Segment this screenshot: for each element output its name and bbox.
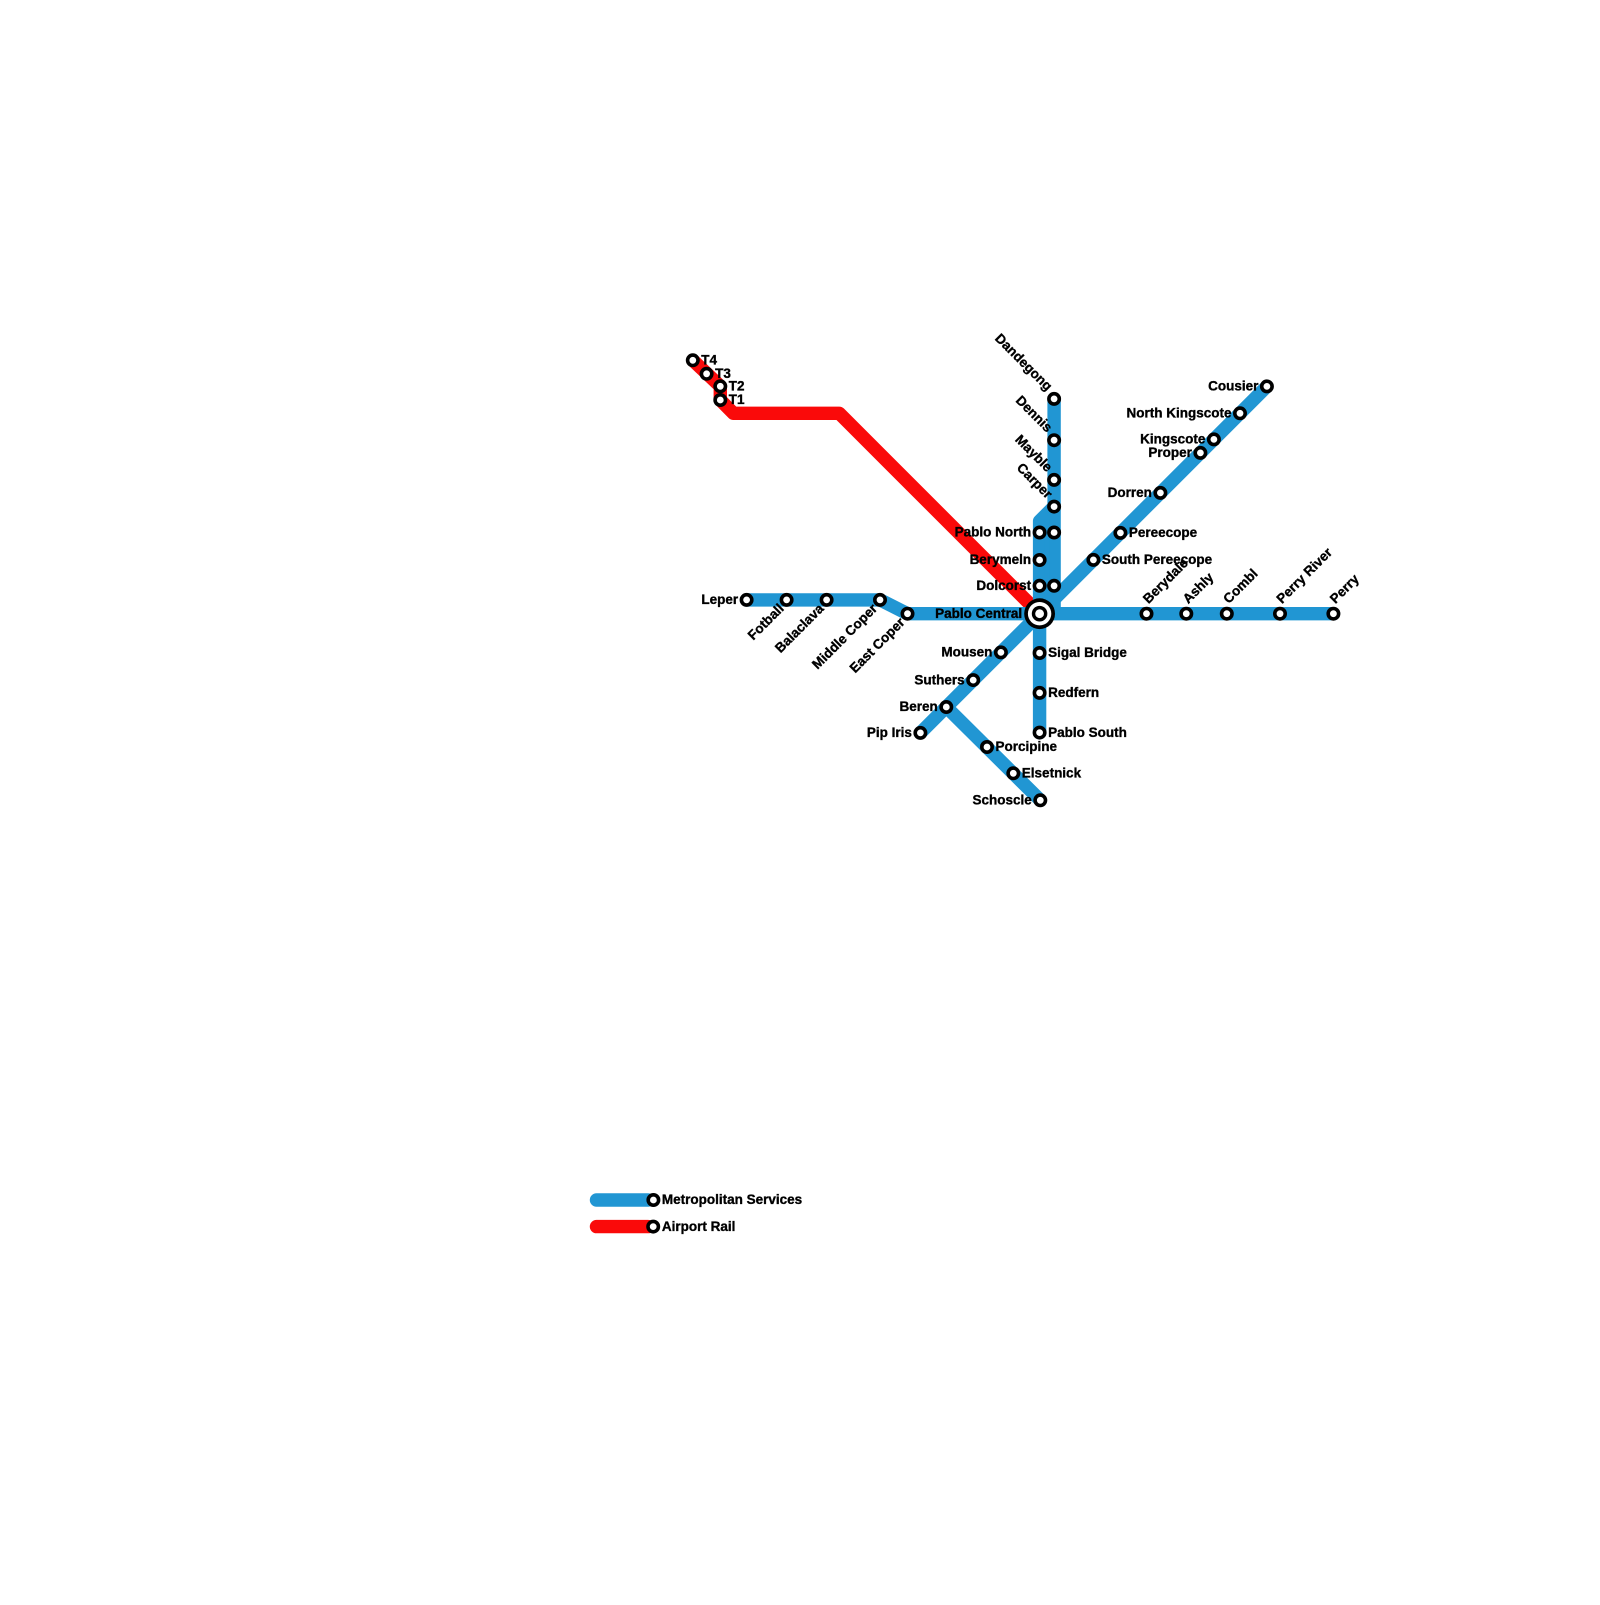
station Schoscle marker [1035,795,1045,805]
svg-text:T1: T1 [729,392,745,407]
svg-text:Mousen: Mousen [941,645,992,660]
station Suthers marker [968,675,978,685]
blue line Carper to Pablo South via Pablo Central [1040,507,1055,733]
station Perry River marker [1275,609,1285,619]
svg-text:Suthers: Suthers [914,672,964,687]
legend Airport Rail [597,1220,649,1233]
svg-text:Porcipine: Porcipine [996,739,1058,754]
svg-text:Beren: Beren [900,699,938,714]
station T2 marker [715,381,725,391]
station Pereecope marker [1115,528,1125,538]
blue seam filler between parallel vertical lines [1044,519,1049,612]
svg-text:Cousier: Cousier [1208,379,1259,394]
svg-text:Redfern: Redfern [1048,685,1099,700]
red Airport Rail line T4 to Pablo Central [693,360,1040,613]
station interchange twin marker [1049,581,1059,591]
station Porcipine marker [982,742,992,752]
station North Kingscote marker [1235,408,1245,418]
station Perry marker [1328,609,1338,619]
svg-text:South Pereecope: South Pereecope [1102,552,1213,567]
svg-text:Dolcorst: Dolcorst [976,578,1031,593]
station T3 marker [701,369,711,379]
station Dolcorst marker [1034,581,1044,591]
blue line southeast diagonal Beren to Schoscle [946,707,1040,800]
svg-text:Sigal Bridge: Sigal Bridge [1048,645,1127,660]
svg-text:North Kingscote: North Kingscote [1126,406,1231,421]
svg-text:Pablo Central: Pablo Central [935,606,1022,621]
svg-text:Proper: Proper [1148,445,1192,460]
station Mayble marker [1049,475,1059,485]
station Sigal Bridge marker [1034,648,1044,658]
station Mousen marker [996,647,1006,657]
station South Pereecope marker [1088,555,1098,565]
svg-text:Leper: Leper [701,592,739,607]
station Berydale marker [1141,609,1151,619]
svg-text:Dorren: Dorren [1108,485,1152,500]
station Ashly marker [1181,609,1191,619]
svg-text:Pablo North: Pablo North [955,525,1032,540]
station Cousier marker [1262,381,1272,391]
svg-text:Airport Rail: Airport Rail [662,1219,736,1234]
svg-text:Pereecope: Pereecope [1129,525,1198,540]
station Fotball marker [781,595,791,605]
station Middle Coper marker [875,595,885,605]
blue line west-east Leper to Perry [747,600,1334,614]
station Balaclava marker [821,595,831,605]
station Dorren marker [1155,488,1165,498]
station Combl marker [1222,609,1232,619]
svg-text:Schoscle: Schoscle [973,793,1033,808]
station Kingscote marker [1209,434,1219,444]
svg-text:Pablo South: Pablo South [1048,725,1127,740]
station Beren marker [941,702,951,712]
station Redfern marker [1034,688,1044,698]
station Carper marker [1049,501,1059,511]
station Pablo South marker [1034,727,1044,737]
svg-text:Elsetnick: Elsetnick [1022,766,1082,781]
svg-text:Metropolitan Services: Metropolitan Services [662,1192,802,1207]
station Dennis marker [1049,435,1059,445]
blue line north vertical Dandegong branch [1047,399,1060,608]
legend Metropolitan Services [597,1193,649,1206]
blue line southwest diagonal to Pip Iris [920,614,1039,733]
svg-text:Pip Iris: Pip Iris [867,725,912,740]
station Elsetnick marker [1008,768,1018,778]
blue line northeast diagonal to Cousier [1040,386,1267,613]
station interchange twin marker [1049,527,1059,537]
station T4 marker [688,355,698,365]
station Pablo North marker [1034,527,1044,537]
station Leper marker [741,595,751,605]
station Pablo Central interchange bullseye [1024,598,1055,629]
station Dandegong marker [1049,394,1059,404]
station Pip Iris marker [915,728,925,738]
svg-text:Berymeln: Berymeln [970,552,1032,567]
station East Coper marker [902,609,912,619]
station Berymeln marker [1034,555,1044,565]
station T1 marker [715,395,725,405]
station Proper marker [1195,448,1205,458]
